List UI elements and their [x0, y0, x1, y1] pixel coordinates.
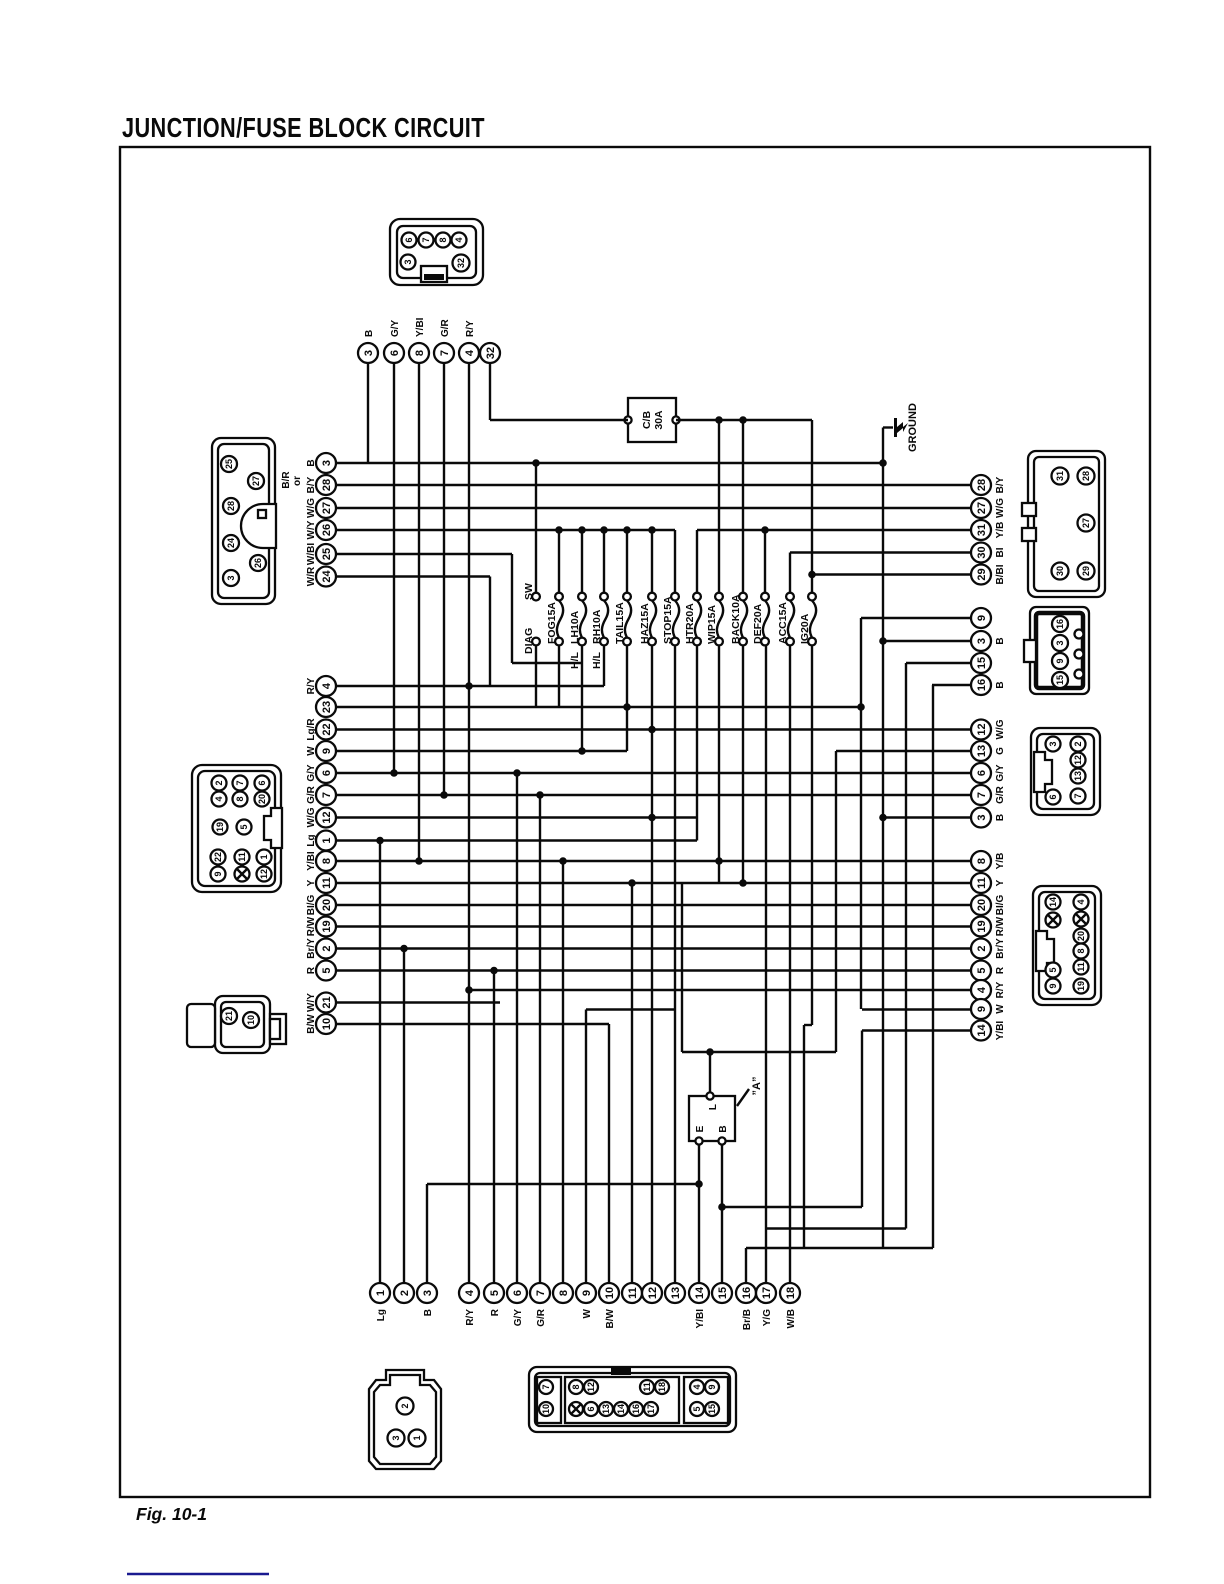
junction junction pin1/net1	[376, 837, 384, 845]
svg-text:H/L: H/L	[569, 652, 581, 670]
wire net31 row (HTR20A top to pin31)	[697, 529, 971, 531]
svg-text:W/Y: W/Y	[306, 520, 317, 539]
svg-text:W/Y: W/Y	[306, 993, 317, 1012]
svg-text:H/L: H/L	[591, 652, 603, 670]
node right pin 29	[971, 564, 1006, 584]
node bottom pin 13	[665, 1283, 685, 1303]
svg-text:Lg: Lg	[306, 834, 317, 846]
svg-text:27: 27	[1081, 518, 1091, 528]
node left pin 6	[306, 763, 336, 783]
wire L lead	[709, 1052, 711, 1092]
svg-text:BI: BI	[995, 547, 1006, 557]
svg-text:W: W	[306, 746, 317, 756]
svg-text:DEF20A: DEF20A	[752, 603, 764, 644]
fuse ACC15A	[777, 593, 794, 646]
connector: right 6-pin (pins 3,6,2,12,13,7)	[1031, 728, 1100, 815]
svg-text:8: 8	[558, 1290, 570, 1296]
node left pin 10	[306, 1014, 336, 1034]
wire C/B output	[676, 419, 812, 421]
fuse TAIL15A	[614, 593, 631, 646]
svg-text:JUNCTION/FUSE BLOCK CIRCUIT: JUNCTION/FUSE BLOCK CIRCUIT	[122, 114, 485, 144]
wire DEF20A top lead	[764, 530, 766, 593]
wire B net row	[722, 1206, 862, 1208]
node top pin 6	[384, 319, 404, 363]
node right pin 13	[971, 741, 1006, 761]
svg-text:W/G: W/G	[306, 807, 317, 827]
svg-text:B: B	[995, 814, 1006, 821]
svg-text:8: 8	[571, 1384, 581, 1389]
junction junction bottom pin8/net8	[559, 857, 567, 865]
svg-text:4: 4	[214, 796, 224, 801]
svg-text:7: 7	[541, 1384, 551, 1389]
svg-text:2: 2	[400, 1403, 410, 1408]
wire net16 grp2 row	[932, 684, 971, 686]
wire net25 row	[336, 553, 512, 555]
svg-text:6: 6	[1048, 794, 1058, 799]
svg-text:5: 5	[976, 967, 988, 973]
wire bottom pin17 link	[766, 1227, 906, 1229]
svg-text:31: 31	[976, 524, 988, 536]
fuse RH10A	[591, 593, 608, 669]
svg-text:13: 13	[601, 1404, 611, 1414]
wire bottom pin5 riser	[493, 971, 495, 1284]
svg-text:3: 3	[976, 638, 988, 644]
svg-text:24: 24	[321, 570, 333, 583]
node right pin 5	[971, 961, 1006, 981]
junction junction pin5/net5	[490, 967, 498, 975]
node left pin 27	[306, 498, 336, 518]
wire bottom pin10 riser	[608, 1024, 610, 1283]
wire ACC15A top lead	[789, 553, 791, 594]
svg-text:16: 16	[631, 1404, 641, 1414]
wire net23 row (DIAG bottom)	[336, 706, 861, 708]
svg-text:R/Y: R/Y	[995, 981, 1006, 998]
svg-text:3: 3	[321, 460, 333, 466]
svg-text:G/R: G/R	[440, 318, 451, 337]
connector: mid-left 14-pin	[192, 765, 282, 892]
node right pin 30	[971, 543, 1006, 563]
wire L net row	[682, 1051, 836, 1053]
svg-text:ACC15A: ACC15A	[777, 602, 789, 644]
svg-text:9: 9	[707, 1384, 717, 1389]
node top pin 32	[480, 343, 500, 363]
wire net28 row	[336, 484, 971, 486]
svg-text:W/G: W/G	[995, 498, 1006, 518]
svg-text:11: 11	[321, 877, 333, 889]
svg-text:10: 10	[321, 1018, 333, 1030]
svg-text:8: 8	[976, 858, 988, 864]
svg-text:9: 9	[976, 1006, 988, 1012]
svg-text:13: 13	[1073, 771, 1083, 781]
node left pin 2	[306, 938, 336, 959]
svg-text:B/W: B/W	[306, 1014, 317, 1034]
svg-text:5: 5	[239, 824, 249, 829]
wire WIP15A top lead	[718, 420, 720, 593]
svg-text:16: 16	[976, 679, 988, 691]
svg-text:11: 11	[237, 852, 247, 862]
wire net27 row	[336, 507, 971, 509]
junction junction pin4 cross	[465, 682, 473, 690]
svg-text:17: 17	[646, 1404, 656, 1414]
wire net4 vertical (top pin4 to bottom pin4)	[468, 363, 470, 1283]
node top pin 3	[358, 330, 378, 363]
junction junction TAIL/net23	[623, 703, 631, 711]
wire net22/12 row (HAZ15A bottom)	[336, 728, 971, 730]
wire net21 row	[336, 1001, 500, 1003]
svg-text:W/BI: W/BI	[306, 543, 317, 565]
svg-text:8: 8	[438, 237, 448, 242]
border frame	[120, 147, 1150, 1497]
svg-text:5: 5	[321, 967, 333, 973]
svg-text:Y/BI: Y/BI	[995, 1021, 1006, 1041]
node right pin 3	[971, 631, 1006, 651]
junction junction top pin6/net6	[390, 769, 398, 777]
svg-text:4: 4	[321, 682, 333, 689]
svg-text:B: B	[718, 1125, 729, 1132]
fuse HAZ15A	[639, 593, 656, 646]
svg-text:Y/BI: Y/BI	[695, 1309, 706, 1329]
circuit breaker C/B 30A	[624, 398, 679, 442]
node right pin 11	[971, 873, 1006, 893]
node bottom pin 4	[459, 1283, 479, 1326]
wire net14 right vertical	[861, 1031, 863, 1208]
wire IG20A tail	[803, 1025, 805, 1248]
wire LH10A bottom lead	[581, 645, 583, 751]
junction junction pin3/DIAG	[532, 459, 540, 467]
junction junction FOG top	[555, 526, 563, 534]
svg-text:1: 1	[259, 854, 269, 859]
node left pin 1	[306, 831, 336, 851]
node right pin 8	[971, 851, 1006, 871]
svg-text:4: 4	[454, 237, 464, 242]
wire net3 grp2 row	[883, 640, 971, 642]
svg-text:26: 26	[321, 524, 333, 536]
svg-text:27: 27	[251, 476, 261, 486]
wire top pin8 drop	[418, 363, 420, 861]
svg-text:6: 6	[976, 770, 988, 776]
wire DIAG SW bottom lead	[535, 645, 537, 707]
junction junction pin3/ground	[879, 459, 887, 467]
svg-text:1: 1	[321, 837, 333, 843]
node top pin 8	[409, 317, 429, 363]
svg-text:5: 5	[1048, 967, 1058, 972]
svg-text:23: 23	[321, 701, 333, 713]
fuse HTR20A	[684, 593, 701, 646]
junction junction LH/net9	[578, 747, 586, 755]
svg-text:FOG15A: FOG15A	[546, 602, 558, 644]
svg-text:26: 26	[253, 558, 263, 568]
svg-text:20: 20	[976, 899, 988, 911]
wire net9 grp2 vertical	[860, 618, 862, 1009]
svg-text:11: 11	[976, 877, 988, 889]
svg-text:G: G	[995, 747, 1006, 755]
svg-text:12: 12	[259, 869, 269, 879]
wire bottom pin1 riser	[379, 841, 381, 1284]
svg-text:19: 19	[1076, 981, 1086, 991]
svg-text:28: 28	[226, 501, 236, 511]
wire IG20A lower jog	[804, 1024, 812, 1026]
wire net12L row	[336, 816, 697, 818]
node bottom pin 6	[507, 1283, 527, 1326]
svg-text:Y/BI: Y/BI	[306, 851, 317, 871]
junction junction bottom pin7/net7	[536, 791, 544, 799]
svg-text:W: W	[582, 1308, 593, 1318]
svg-text:7: 7	[535, 1290, 547, 1296]
wire net11 row	[336, 882, 971, 884]
svg-text:29: 29	[1081, 566, 1091, 576]
svg-text:13: 13	[670, 1287, 682, 1299]
node left pin 28	[306, 475, 336, 495]
svg-text:7: 7	[421, 237, 431, 242]
wire LH10A top lead	[581, 530, 583, 593]
wire net26 row (pin26 to STOP15A top)	[336, 529, 675, 531]
svg-text:11: 11	[627, 1287, 639, 1299]
wire net3 grp3 row	[883, 816, 971, 818]
junction junction pin4/net4R	[465, 986, 473, 994]
wire net4 right row	[469, 989, 971, 991]
junction junction RH top	[600, 526, 608, 534]
svg-text:R/W: R/W	[306, 916, 317, 936]
wire bottom pin7 riser	[539, 795, 541, 1283]
switch DIAG SW	[523, 583, 540, 654]
wire STOP15A top lead	[674, 530, 676, 593]
wire BACK10A bottom lead	[742, 645, 744, 883]
svg-text:12: 12	[976, 723, 988, 735]
svg-text:7: 7	[235, 780, 245, 785]
svg-text:11: 11	[1076, 962, 1086, 972]
node bottom pin 7	[530, 1283, 550, 1327]
svg-text:21: 21	[224, 1011, 234, 1021]
wire FOG15A bottom lead	[558, 645, 560, 707]
wire E net row (bottom pin 3 to E)	[427, 1183, 699, 1185]
svg-text:9: 9	[581, 1290, 593, 1296]
wire net24 drop	[489, 577, 491, 687]
svg-text:LH10A: LH10A	[569, 610, 581, 644]
svg-text:R/Y: R/Y	[306, 677, 317, 694]
svg-text:3: 3	[363, 350, 375, 356]
wire net13 right row	[836, 750, 971, 752]
connector: lower-right 10-pin	[1033, 886, 1101, 1005]
wire IG20A bottom lead	[811, 645, 813, 1025]
junction junction bottom pin6/net6	[513, 769, 521, 777]
svg-text:RH10A: RH10A	[591, 609, 603, 644]
svg-text:15: 15	[717, 1287, 729, 1299]
svg-text:Y/B: Y/B	[995, 522, 1006, 539]
svg-text:29: 29	[976, 568, 988, 580]
svg-text:10: 10	[541, 1404, 551, 1414]
svg-text:2: 2	[214, 780, 224, 785]
junction junction bottom pin2/net2	[400, 945, 408, 953]
svg-text:4: 4	[1076, 899, 1086, 904]
junction junction L lead	[706, 1048, 714, 1056]
svg-text:B/Y: B/Y	[995, 476, 1006, 493]
node right pin 7	[971, 785, 1006, 805]
wire DIAG SW top lead	[535, 463, 537, 593]
junction junction E lead	[695, 1180, 703, 1188]
svg-text:Y/G: Y/G	[762, 1309, 773, 1326]
junction junction top pin8/net8	[415, 857, 423, 865]
svg-text:B: B	[423, 1309, 434, 1316]
svg-text:19: 19	[215, 822, 225, 832]
svg-text:G/Y: G/Y	[995, 764, 1006, 782]
svg-text:30: 30	[976, 546, 988, 558]
wire net2 row	[336, 947, 971, 949]
node right pin 2	[971, 938, 1006, 959]
node right pin 9	[971, 999, 1006, 1019]
svg-text:TAIL15A: TAIL15A	[614, 602, 626, 644]
svg-text:17: 17	[761, 1287, 773, 1299]
svg-text:G/R: G/R	[995, 785, 1006, 804]
junction junction LH top	[578, 526, 586, 534]
connector: top 6-pin (pins 6,7,8,4,3,32)	[390, 219, 483, 285]
svg-text:G/R: G/R	[536, 1308, 547, 1327]
svg-text:3: 3	[422, 1290, 434, 1296]
wire top pin7 drop	[443, 363, 445, 795]
wire net25 jog	[512, 662, 582, 664]
node right pin 6	[971, 763, 1006, 783]
wire net8 row	[336, 860, 971, 862]
svg-text:B: B	[306, 459, 317, 466]
wire C/B input	[490, 419, 628, 421]
wire net9 grp2 row	[861, 617, 971, 619]
node left pin 8	[306, 851, 336, 871]
node left pin 7	[306, 785, 336, 805]
svg-text:L: L	[708, 1104, 719, 1110]
node top pin 4	[459, 320, 479, 363]
wire top pin3 drop	[367, 363, 369, 463]
svg-text:Br/B: Br/B	[742, 1309, 753, 1330]
svg-text:Y/BI: Y/BI	[415, 317, 426, 337]
svg-text:2: 2	[1073, 741, 1083, 746]
wire bottom pin16 link	[746, 1247, 933, 1249]
svg-text:4: 4	[976, 986, 988, 993]
fuse IG20A	[799, 593, 816, 646]
wire TAIL15A bottom lead	[626, 645, 628, 751]
svg-text:5: 5	[489, 1290, 501, 1296]
svg-text:25: 25	[321, 548, 333, 560]
node right pin 20	[971, 895, 1006, 916]
node left pin 9	[306, 741, 336, 761]
svg-text:G/Y: G/Y	[513, 1309, 524, 1327]
svg-text:B/BI: B/BI	[995, 564, 1006, 584]
svg-text:SW: SW	[523, 583, 535, 600]
svg-text:5: 5	[692, 1406, 702, 1411]
node bottom pin 1	[370, 1283, 390, 1321]
svg-text:11: 11	[642, 1382, 652, 1392]
node bottom pin 17	[756, 1283, 776, 1326]
svg-text:Y: Y	[306, 879, 317, 886]
node bottom pin 3	[417, 1283, 437, 1316]
node left pin 5	[306, 961, 336, 981]
svg-text:15: 15	[976, 657, 988, 669]
wire ground vertical	[882, 428, 884, 1249]
svg-text:Br/Y: Br/Y	[995, 938, 1006, 959]
wire HTR20A top lead	[696, 530, 698, 593]
junction junction bottom pin11/net11	[628, 879, 636, 887]
node right pin 16	[971, 675, 1006, 695]
svg-text:21: 21	[321, 996, 333, 1008]
node left pin 24	[306, 566, 336, 586]
fuse WIP15A	[706, 593, 723, 646]
node left pin 22	[306, 718, 336, 741]
node right pin 3	[971, 808, 1006, 828]
svg-text:8: 8	[321, 858, 333, 864]
svg-text:G/R: G/R	[306, 785, 317, 804]
svg-text:7: 7	[976, 792, 988, 798]
svg-text:20: 20	[1076, 931, 1086, 941]
svg-text:19: 19	[976, 920, 988, 932]
wire net9 lower row	[586, 1008, 675, 1010]
svg-text:R: R	[306, 966, 317, 974]
wire net13 right vertical	[835, 751, 837, 1052]
svg-text:B: B	[995, 637, 1006, 644]
junction junction BACK/net11	[739, 879, 747, 887]
junction junction ground/pin3 grp2	[879, 637, 887, 645]
node bottom pin 11	[622, 1283, 642, 1303]
wire net20 row	[336, 904, 971, 906]
junction junction ground/pin3 grp3	[879, 814, 887, 822]
svg-text:BI/G: BI/G	[306, 895, 317, 916]
svg-text:8: 8	[1076, 948, 1086, 953]
svg-text:R: R	[490, 1308, 501, 1316]
junction junction WIP/net8	[715, 857, 723, 865]
node bottom pin 14	[689, 1283, 709, 1328]
svg-text:28: 28	[1081, 471, 1091, 481]
svg-text:18: 18	[657, 1382, 667, 1392]
svg-text:R/W: R/W	[995, 916, 1006, 936]
wire E lead to bottom pin14	[698, 1145, 700, 1283]
wire net9 left row (LH10A bottom)	[336, 750, 627, 752]
svg-text:19: 19	[321, 920, 333, 932]
junction junction IG/pin29	[808, 571, 816, 579]
svg-text:14: 14	[1048, 897, 1058, 907]
node left pin 4	[306, 676, 336, 696]
node bottom pin 18	[780, 1283, 800, 1328]
svg-text:3: 3	[226, 575, 236, 580]
svg-text:6: 6	[257, 780, 267, 785]
svg-text:or: or	[292, 476, 303, 486]
svg-text:6: 6	[321, 770, 333, 776]
svg-text:24: 24	[226, 538, 236, 548]
svg-text:7: 7	[1073, 793, 1083, 798]
node bottom pin 16	[736, 1283, 756, 1330]
svg-text:25: 25	[224, 459, 234, 469]
svg-text:8: 8	[414, 350, 426, 356]
wire net3 row (left pin 3 to ground)	[336, 462, 883, 464]
svg-text:22: 22	[213, 852, 223, 862]
node bottom pin 5	[484, 1283, 504, 1316]
svg-text:B/Y: B/Y	[306, 476, 317, 493]
junction junction B lead	[718, 1203, 726, 1211]
svg-text:15: 15	[707, 1404, 717, 1414]
fuse DEF20A	[752, 593, 769, 646]
svg-text:DIAG: DIAG	[523, 628, 535, 654]
wire top pin6 drop	[393, 363, 395, 773]
svg-text:7: 7	[439, 350, 451, 356]
svg-text:1: 1	[412, 1435, 422, 1440]
wire RH10A top lead	[603, 530, 605, 593]
node bottom pin 2	[394, 1283, 414, 1303]
node top pin 7	[434, 318, 454, 363]
svg-text:W/G: W/G	[995, 719, 1006, 739]
fuse FOG15A	[546, 593, 563, 646]
node right pin 31	[971, 520, 1006, 540]
wire net14 right row	[862, 1029, 971, 1031]
svg-text:12: 12	[1073, 755, 1083, 765]
svg-text:Br/Y: Br/Y	[306, 938, 317, 959]
wire bottom pin6 riser	[516, 773, 518, 1283]
wire TAIL15A top lead	[626, 530, 628, 593]
